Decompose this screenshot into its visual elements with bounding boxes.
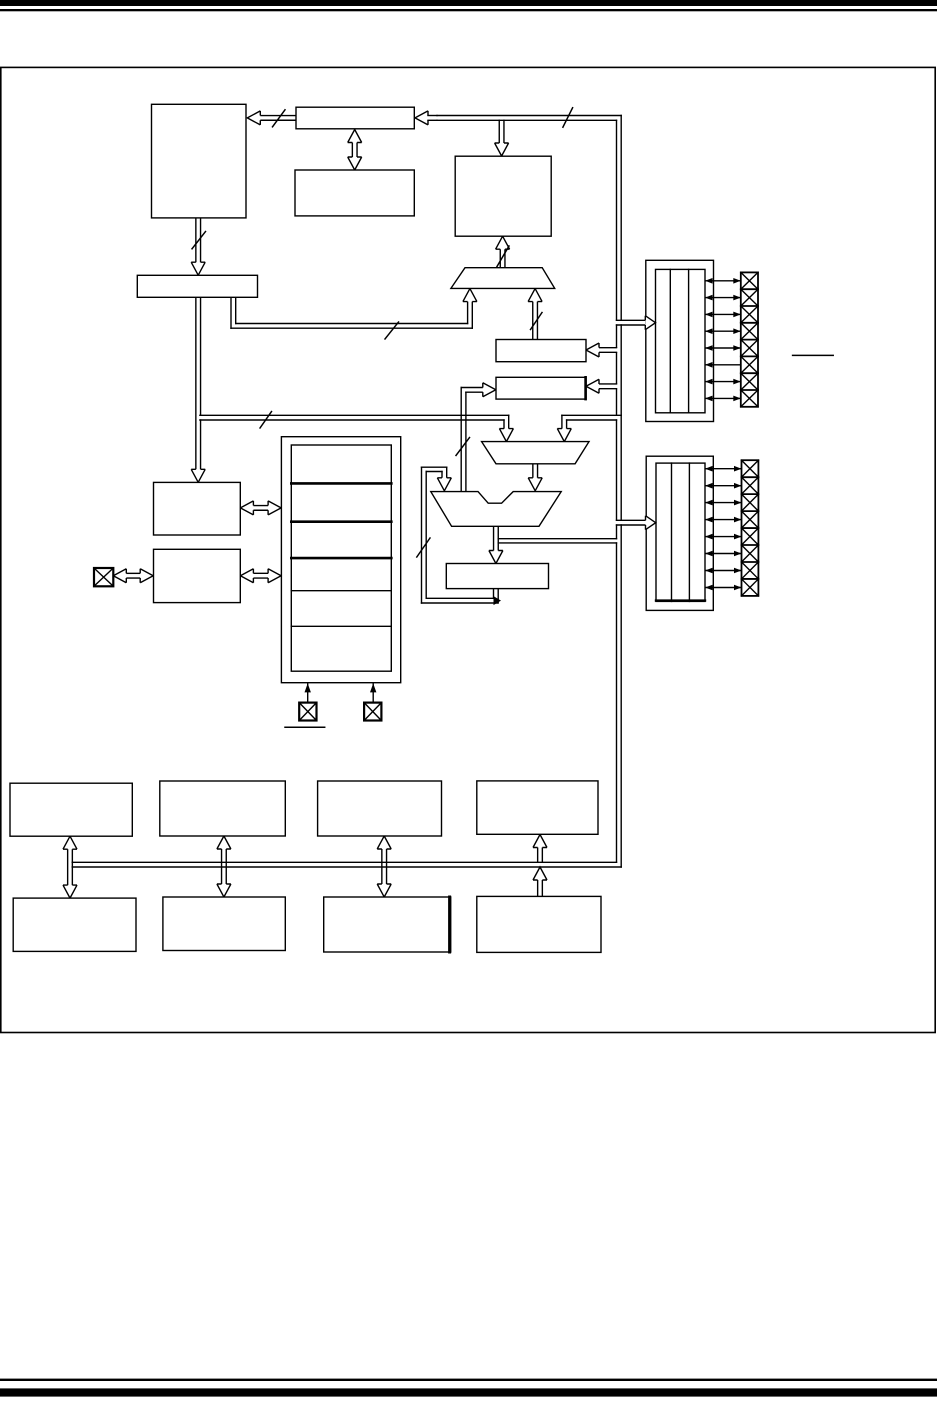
block: peripheral D top: [477, 781, 598, 834]
wire: operand wire into ALU left, with slash: [456, 383, 496, 492]
pad: crystal pad XTAL: [94, 568, 113, 586]
block: timing and control: [154, 549, 241, 602]
outer frame: [1, 67, 935, 1032]
wire: program memory to address latch, with slash: [191, 218, 205, 275]
block: instruction register: [295, 170, 414, 216]
wire: oscillator pad to timing block double arrow: [113, 569, 153, 583]
wire: register bus run to ALU multiplexer left input, with slash: [200, 412, 514, 442]
wires: port 2 pad arrows: [705, 466, 742, 590]
wires: port 1 pad arrows (row 6 single-ended): [705, 278, 741, 401]
block: temp register B bold right edge: [496, 377, 586, 399]
wire: bus up-arrow into interrupt block: [533, 835, 547, 863]
wire: bottom peripheral bus: [72, 862, 621, 867]
block: register / SFR stack: [281, 437, 400, 683]
pads: port 1 pin pads: [741, 272, 758, 406]
block: peripheral B bottom: [163, 897, 285, 951]
block: peripheral C top: [318, 781, 442, 836]
wire: internal bus to program memory, with slash: [247, 110, 296, 127]
label rule: signal name overline (port side): [793, 354, 834, 356]
wire: multiplexer output to decoder, with slash: [496, 236, 510, 268]
wire: data bus branch into port latch 1: [617, 316, 656, 330]
wire: latch down to program counter: [191, 297, 205, 482]
header bar: [0, 0, 937, 6]
wire: latch branch to multiplexer left input, with slash: [231, 289, 477, 339]
block: peripheral D bottom: [477, 896, 601, 952]
wire: peripheral bus double arrow 3: [377, 836, 391, 897]
footer bar: [0, 1388, 937, 1396]
wire: multiplexer output into ALU: [528, 464, 542, 491]
wire: status register output stub: [494, 589, 499, 603]
ALU: [431, 492, 561, 527]
wire: data bus tap into register A: [586, 343, 617, 357]
block: program counter: [154, 482, 241, 535]
wire: VCC pad arrow into register block: [305, 683, 311, 702]
wire: main data bus vertical: [617, 116, 622, 868]
block: program address latch: [137, 275, 257, 297]
block: port 1 latch/driver: [646, 260, 714, 421]
block: peripheral B top: [160, 781, 285, 836]
wire: timing block to register block double arrow: [240, 569, 281, 583]
footer rule: [0, 1379, 937, 1381]
pads: port 2 pin pads: [742, 460, 759, 596]
wire: ALU result to status register and data bus: [489, 526, 617, 563]
block: status register: [446, 564, 548, 589]
block: temp register A: [496, 340, 586, 362]
block: peripheral A top: [10, 783, 132, 836]
pad: supply pad VCC: [299, 703, 316, 721]
block: port 2 latch/driver: [646, 456, 713, 610]
block: peripheral A bottom: [13, 898, 136, 951]
block: instruction decoder: [455, 156, 551, 236]
multiplexer MUX1: [451, 268, 555, 289]
wire: data bus run to ALU multiplexer right input: [557, 415, 621, 441]
wire: up-arrow from block into bus: [533, 867, 547, 896]
block: program memory: [152, 104, 247, 218]
wire: status loop back to ALU input, with slash: [417, 467, 501, 605]
wire: instruction register vertical double arrow: [348, 130, 362, 171]
pad: supply pad GND: [364, 703, 381, 721]
wire: data bus top run into instruction-fetch register, with slash: [415, 108, 621, 128]
wire: data bus tap into register B: [586, 379, 617, 393]
wire: program counter to register block double arrow: [240, 501, 281, 515]
wire: peripheral bus double arrow 1: [63, 836, 77, 898]
wire: peripheral bus double arrow 2: [217, 836, 231, 897]
wire: GND pad arrow into register block: [370, 683, 376, 702]
label rule: pad name underline: [285, 726, 325, 728]
wire: data bus branch into port latch 2: [617, 516, 656, 530]
header rule: [0, 9, 937, 11]
multiplexer MUX2: [482, 442, 589, 464]
block: instruction fetch register: [296, 107, 414, 129]
block: peripheral C bottom bold right edge: [324, 897, 451, 952]
wire: bus tap into decoder top: [495, 120, 509, 156]
wire: register to multiplexer right input, with slash: [528, 289, 542, 340]
